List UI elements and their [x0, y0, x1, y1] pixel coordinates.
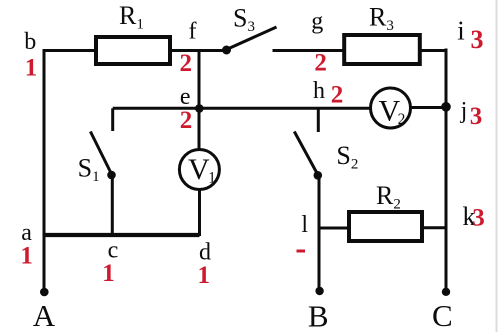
svg-text:l: l: [301, 212, 308, 238]
svg-text:A: A: [33, 298, 56, 332]
svg-text:2: 2: [314, 50, 327, 77]
svg-text:1: 1: [20, 243, 33, 270]
svg-text:h: h: [313, 78, 325, 104]
svg-text:g: g: [311, 9, 323, 35]
svg-text:B: B: [308, 299, 329, 332]
svg-text:2: 2: [179, 50, 192, 77]
svg-text:i: i: [457, 16, 465, 46]
svg-text:C: C: [432, 298, 453, 332]
svg-text:f: f: [189, 19, 197, 45]
svg-text:3: 3: [471, 25, 484, 54]
svg-text:b: b: [24, 29, 36, 55]
svg-text:1: 1: [102, 260, 115, 287]
svg-text:3: 3: [472, 205, 485, 232]
svg-text:j: j: [460, 98, 468, 124]
svg-text:3: 3: [470, 103, 483, 130]
svg-text:2: 2: [331, 82, 344, 109]
svg-text:1: 1: [25, 55, 38, 82]
svg-text:2: 2: [180, 107, 193, 134]
svg-text:1: 1: [197, 262, 210, 289]
